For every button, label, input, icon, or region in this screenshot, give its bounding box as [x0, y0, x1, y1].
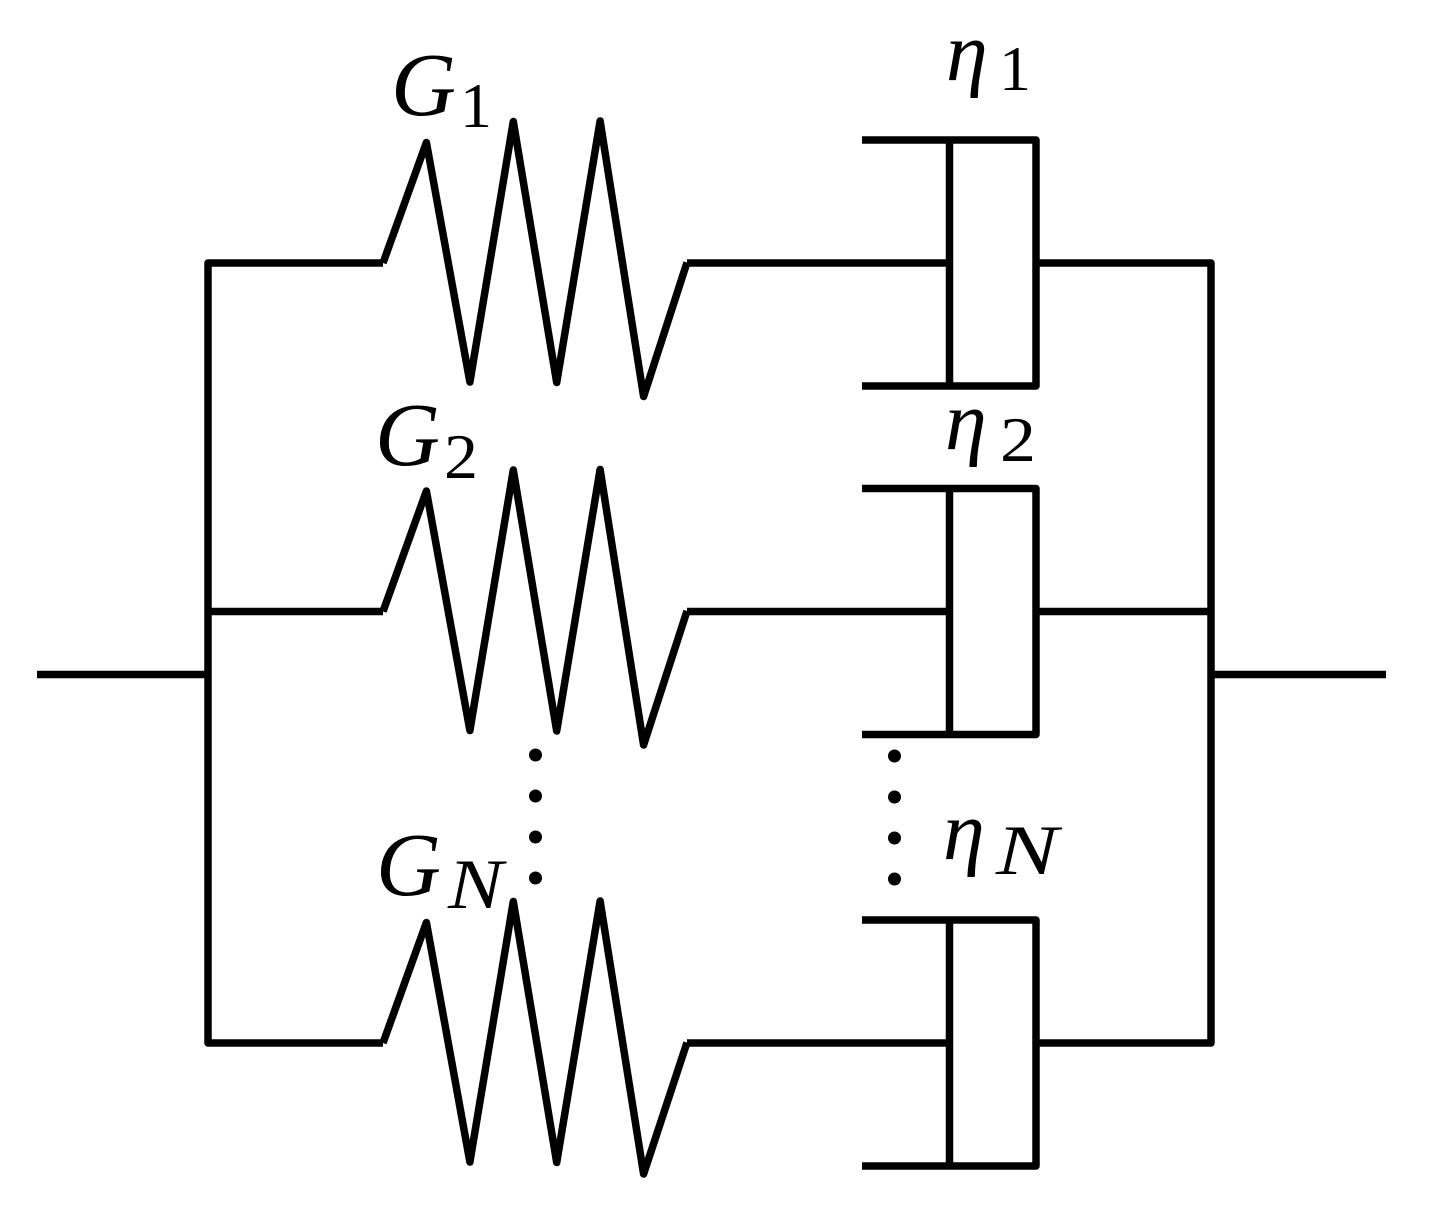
- wire left lead: [37, 671, 208, 679]
- wire spring GN to damper piston: [687, 1039, 950, 1047]
- svg-text:η: η: [946, 6, 988, 99]
- wire right stub branch 2: [1036, 608, 1211, 616]
- wire spring G1 to damper piston: [687, 259, 950, 267]
- wire left bus with branch 1 and branch N stubs: [208, 263, 383, 1043]
- svg-text:G: G: [375, 386, 440, 485]
- svg-text:G: G: [376, 816, 441, 915]
- spring G1: [383, 121, 687, 397]
- wire spring G2 to damper piston: [687, 608, 950, 616]
- spring G2: [383, 470, 687, 746]
- svg-text:2: 2: [1000, 404, 1036, 475]
- damper eta2 piston plate: [946, 489, 954, 735]
- wire right bus with branch 1 and branch N stubs: [1036, 263, 1211, 1043]
- svg-text:N: N: [447, 846, 507, 924]
- svg-text:2: 2: [444, 421, 478, 492]
- damper etaN cylinder: [862, 920, 1036, 1166]
- svg-text:η: η: [945, 375, 987, 468]
- damper eta1 cylinder: [862, 140, 1036, 386]
- wire left stub branch 2: [208, 608, 383, 616]
- svg-text:1: 1: [460, 70, 492, 141]
- spring GN: [383, 901, 687, 1174]
- svg-text:1: 1: [999, 33, 1031, 104]
- svg-text:η: η: [943, 785, 985, 878]
- damper etaN piston plate: [946, 920, 954, 1166]
- svg-text:G: G: [391, 36, 456, 135]
- damper eta2 cylinder: [862, 489, 1036, 735]
- ellipsis dots right column: [888, 750, 901, 763]
- wire right lead: [1211, 671, 1386, 679]
- damper eta1 piston plate: [946, 140, 954, 386]
- svg-text:N: N: [995, 812, 1063, 890]
- ellipsis dots left column: [529, 749, 542, 762]
